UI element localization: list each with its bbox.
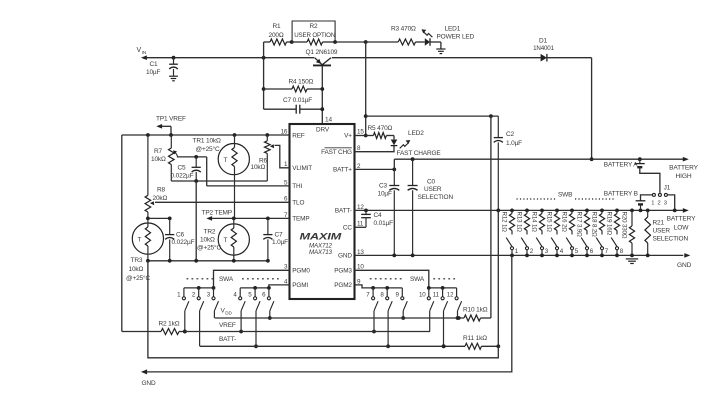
svg-text:SELECTION: SELECTION: [653, 236, 689, 243]
svg-text:SELECTION: SELECTION: [418, 194, 454, 201]
capacitor C4: [365, 210, 367, 214]
wire D1 cathode to battery+: [547, 57, 592, 59]
svg-text:DRV: DRV: [316, 127, 330, 134]
LED LED2: [393, 136, 395, 140]
svg-text:C4: C4: [374, 212, 383, 219]
wire thermistor bottom line: [148, 260, 268, 262]
thermistor TR1: [218, 144, 249, 175]
capacitor C0 user selection: [412, 159, 414, 185]
capacitor C6: [169, 218, 171, 234]
svg-text:1.0µF: 1.0µF: [506, 140, 522, 147]
resistor R2 1k: [161, 329, 179, 335]
capacitor C5: [195, 157, 197, 167]
junction C6 top: [168, 217, 172, 221]
svg-text:R11 1kΩ: R11 1kΩ: [463, 335, 487, 342]
svg-text:BATT+: BATT+: [333, 167, 352, 174]
wire REF left rail down: [121, 135, 123, 332]
junction C0 bottom: [411, 254, 415, 258]
svg-text:PGM3: PGM3: [334, 268, 352, 275]
svg-text:TR3: TR3: [131, 257, 143, 264]
svg-text:C6: C6: [176, 232, 185, 239]
junction D1 / battery+ line: [590, 157, 594, 161]
svg-text:0.022µF: 0.022µF: [172, 239, 195, 246]
svg-text:@+25°C: @+25°C: [197, 243, 221, 251]
wire J1-1 to battery B: [641, 195, 653, 201]
svg-text:PGM2: PGM2: [334, 282, 352, 289]
junction R4 right: [320, 87, 324, 91]
svg-text:R16 2Ω: R16 2Ω: [560, 212, 567, 233]
svg-text:C7 0.01µF: C7 0.01µF: [283, 97, 312, 104]
wire PGM0 pin3 to SWA1-3: [214, 270, 290, 288]
wire R10 riser: [490, 116, 492, 318]
svg-text:FAST CHG: FAST CHG: [321, 149, 352, 156]
junction C3 top / BATT+ jog: [392, 168, 396, 172]
svg-text:R2: R2: [309, 23, 318, 30]
svg-text:D1: D1: [539, 38, 548, 45]
wire R7/R6 bottom link: [171, 180, 267, 182]
junction C5 bottom: [194, 179, 198, 183]
wire pin11 stub: [355, 226, 367, 228]
svg-text:BATT-: BATT-: [335, 208, 352, 215]
junction C2/R11 riser on battery-: [496, 209, 500, 213]
svg-text:R19 16Ω: R19 16Ω: [605, 212, 612, 236]
svg-text:3: 3: [664, 201, 667, 207]
switch SWA-10: [428, 288, 430, 297]
wire R4 row: [264, 88, 292, 90]
wire V+ riser: [365, 42, 367, 136]
wire R7 wiper to THI riser: [177, 156, 207, 158]
wire TEMP line pin7: [212, 217, 290, 219]
svg-text:PGM0: PGM0: [292, 268, 310, 275]
svg-text:10: 10: [419, 291, 426, 298]
switch SWA-6: [268, 288, 270, 297]
wire VIN line to Q1 emitter: [146, 57, 314, 59]
junction VIN / left rail: [262, 56, 266, 60]
svg-text:R2 1kΩ: R2 1kΩ: [159, 320, 180, 327]
capacitor C2: [497, 116, 499, 138]
switch SWA-2: [198, 288, 200, 297]
svg-text:R13 1Ω: R13 1Ω: [515, 212, 522, 233]
IC U1 MAX712/MAX713 body: [290, 124, 355, 299]
resistor R14 with switch SWB-3: [540, 209, 544, 213]
diode D1 1N4001: [541, 54, 547, 62]
resistor R16 with switch SWB-5: [570, 209, 574, 213]
thermistor TR2: [218, 224, 249, 255]
resistor R18 with switch SWB-7: [600, 209, 604, 213]
junction R10 riser top: [489, 114, 493, 118]
wire THI riser: [206, 157, 208, 186]
capacitor C7 0.01uF: [295, 105, 297, 114]
svg-text:BATTERY: BATTERY: [669, 165, 699, 172]
svg-text:CC: CC: [343, 225, 352, 232]
svg-text:@+25°C: @+25°C: [196, 145, 220, 153]
capacitor C7 1.0uF: [267, 218, 269, 234]
test point TP1 VREF: [156, 124, 162, 129]
svg-text:2: 2: [658, 201, 661, 207]
svg-text:TEMP: TEMP: [292, 216, 309, 223]
svg-text:GND: GND: [338, 253, 352, 260]
resistor R2 user option: [307, 39, 322, 45]
svg-text:LOW: LOW: [674, 224, 689, 231]
svg-text:C7: C7: [275, 232, 284, 239]
svg-text:IN: IN: [142, 50, 146, 55]
svg-text:BATTERY A: BATTERY A: [604, 161, 639, 168]
switch SWA-3: [213, 288, 215, 297]
resistor R13 with switch SWB-2: [525, 209, 529, 213]
junction SWA3 top: [212, 286, 216, 290]
svg-text:10µF: 10µF: [378, 190, 393, 197]
switch SWA-8: [386, 288, 388, 297]
wire pin2 stub: [355, 168, 395, 170]
resistor R11: [465, 343, 482, 349]
svg-text:R18 8.2Ω: R18 8.2Ω: [590, 212, 597, 238]
svg-text:T: T: [224, 237, 228, 244]
svg-text:MAXIM: MAXIM: [300, 232, 342, 242]
switch SWA-11: [442, 288, 444, 297]
battery BATTERY A: [639, 159, 641, 163]
wire BATT+ jog: [393, 159, 395, 169]
junction C5-riser bottom: [194, 259, 198, 263]
switch SWA-1: [183, 288, 185, 297]
junction C0 top: [411, 157, 415, 161]
svg-text:T: T: [224, 157, 228, 164]
svg-text:R20 330Ω: R20 330Ω: [620, 212, 627, 239]
node BATTERY HIGH terminal: [683, 157, 689, 162]
wire VDD bus to R10: [464, 315, 481, 321]
svg-text:R7: R7: [154, 148, 163, 155]
svg-text:VLIMIT: VLIMIT: [292, 165, 312, 172]
junction R10 left: [457, 316, 461, 320]
svg-text:R1: R1: [273, 23, 282, 30]
wire Q1 collector line to D1: [332, 57, 541, 59]
svg-text:BATTERY: BATTERY: [667, 216, 697, 223]
wire to R3: [366, 41, 399, 43]
box R2 outline: [292, 21, 335, 42]
junction C5 top: [194, 155, 198, 159]
wire R8 wiper to TLO pin6: [155, 201, 290, 203]
junction R6 on REF: [265, 133, 269, 137]
svg-text:USER OPTION: USER OPTION: [294, 32, 335, 39]
svg-text:14: 14: [325, 116, 332, 123]
resistor R19 with switch SWB-8: [615, 209, 619, 213]
svg-text:0.022µF: 0.022µF: [171, 172, 194, 179]
svg-text:V+: V+: [344, 132, 352, 139]
svg-text:Q1 2N6109: Q1 2N6109: [306, 49, 338, 56]
ground under C1: [169, 75, 178, 77]
svg-text:THI: THI: [292, 183, 302, 190]
wire left rail: [263, 42, 265, 109]
wire VREF bus: [185, 331, 430, 333]
wire R11 riser: [497, 210, 499, 346]
svg-text:VREF: VREF: [219, 322, 236, 329]
svg-text:BATT-: BATT-: [219, 336, 236, 343]
svg-text:GND: GND: [677, 262, 692, 269]
svg-text:C0: C0: [427, 178, 436, 185]
svg-text:BATTERY B: BATTERY B: [604, 191, 638, 198]
wire PGM2 pin9 to SWA7-9: [355, 285, 403, 288]
resistor R12 with switch SWB-1: [510, 209, 514, 213]
svg-text:10kΩ: 10kΩ: [200, 236, 215, 243]
resistor R4: [292, 86, 307, 92]
wire BATT- bus: [200, 345, 465, 347]
junction R2-1k / SWA1: [183, 330, 187, 334]
svg-text:USER: USER: [424, 186, 442, 193]
wire C7 row: [264, 108, 297, 110]
wire R8-C6 link: [148, 217, 170, 219]
junction SWA11 top: [441, 286, 445, 290]
wire SWA10-12 top line: [429, 287, 457, 289]
junction SWA8 top: [385, 286, 389, 290]
junction C4 top: [364, 209, 368, 213]
wire R6 wiper to VLIMIT pin1: [275, 145, 290, 167]
wire R2 out to V+ riser: [335, 41, 366, 43]
resistor R6 10k trimmer: [266, 135, 268, 141]
junction C3 bottom: [392, 254, 396, 258]
svg-text:C3: C3: [379, 183, 388, 190]
resistor R1: [270, 39, 287, 45]
svg-text:REF: REF: [292, 132, 305, 139]
resistor R5: [366, 135, 374, 137]
wire battery- line pin12: [355, 209, 684, 211]
svg-text:R5 470Ω: R5 470Ω: [368, 125, 393, 132]
junction R8 on REF: [146, 133, 150, 137]
switch SWA-9: [401, 288, 403, 297]
junction C7 right: [320, 107, 324, 111]
battery BATTERY B: [636, 200, 646, 202]
svg-text:POWER LED: POWER LED: [437, 34, 475, 41]
svg-text:TP1 VREF: TP1 VREF: [156, 116, 186, 123]
svg-text:J1: J1: [664, 184, 671, 191]
switch SWA-12: [456, 288, 458, 297]
wire SWA1-3 top line: [184, 287, 214, 289]
capacitor C3: [393, 169, 395, 185]
resistor R20: [630, 209, 634, 213]
switch SWA-4: [239, 288, 241, 297]
svg-text:TLO: TLO: [292, 200, 304, 207]
svg-text:SWB: SWB: [558, 192, 572, 199]
svg-text:GND: GND: [142, 380, 156, 387]
switch SWA-5: [254, 288, 256, 297]
node VIN input terminal: [141, 55, 147, 60]
svg-text:200Ω: 200Ω: [269, 32, 284, 39]
junction TR2 bottom: [232, 259, 236, 263]
node BATTERY LOW terminal: [683, 208, 689, 213]
resistor R3: [398, 39, 415, 45]
svg-text:1N4001: 1N4001: [533, 45, 554, 52]
junction R2 box right: [333, 40, 337, 44]
wire battery+ line: [394, 158, 683, 160]
junction battery A tap: [638, 157, 642, 161]
junction TR1 on REF: [233, 133, 237, 137]
ground under R20: [626, 258, 638, 260]
junction R11 right: [496, 344, 500, 348]
test point TP2 TEMP: [206, 216, 212, 221]
svg-text:R10 1kΩ: R10 1kΩ: [463, 307, 488, 314]
wire to R2 1k: [122, 331, 161, 333]
svg-text:C1: C1: [150, 61, 159, 68]
capacitor C1: [173, 58, 175, 64]
svg-text:R12 1Ω: R12 1Ω: [500, 212, 507, 233]
svg-text:TR2: TR2: [204, 228, 216, 235]
svg-text:R15 1Ω: R15 1Ω: [545, 212, 552, 233]
svg-text:R4 150Ω: R4 150Ω: [289, 79, 314, 86]
svg-text:MAX713: MAX713: [309, 249, 333, 256]
junction C7 top: [266, 217, 270, 221]
svg-text:15: 15: [357, 128, 364, 135]
svg-text:R17 3.9Ω: R17 3.9Ω: [575, 212, 582, 238]
junction TR3 bottom: [146, 259, 150, 263]
svg-text:1: 1: [651, 201, 654, 207]
svg-text:10kΩ: 10kΩ: [251, 164, 266, 171]
svg-text:C5: C5: [178, 165, 187, 172]
resistor R7 10k trimmer: [170, 135, 172, 148]
resistor R21 user selection: [646, 209, 650, 213]
junction J1-3 riser: [673, 209, 677, 213]
wire THI line pin5: [207, 185, 290, 187]
svg-text:0.01µF: 0.01µF: [374, 220, 394, 227]
ground under LED1: [436, 48, 445, 50]
wire battery A to J1-2: [640, 167, 660, 193]
wire J1-3 to battery- line: [668, 195, 675, 211]
wire C5 junction riser to BATT- net: [195, 181, 197, 261]
wire Q1 base to DRV pin 14: [321, 65, 323, 124]
wire BATT- return line: [148, 261, 498, 358]
svg-text:USER: USER: [653, 228, 671, 235]
svg-text:10kΩ: 10kΩ: [151, 156, 166, 163]
transistor Q1 2N6109: [313, 64, 331, 66]
svg-text:LED1: LED1: [445, 25, 461, 32]
junction R11 left: [442, 344, 446, 348]
junction C6 bottom: [168, 259, 172, 263]
junction V+ rail tee: [364, 114, 368, 118]
wire R1-R2 link: [292, 41, 307, 43]
wire R1 row: [264, 41, 270, 43]
junction TR2 top: [232, 217, 236, 221]
junction pin15/R5: [364, 134, 368, 138]
wire GND return line: [147, 255, 512, 372]
svg-text:R14 1Ω: R14 1Ω: [530, 212, 537, 233]
junction R4 left: [262, 87, 266, 91]
svg-text:TP2 TEMP: TP2 TEMP: [202, 209, 232, 216]
svg-text:R21: R21: [653, 220, 665, 227]
svg-text:DD: DD: [225, 310, 232, 315]
wire PGM3 pin10 to SWA10-12: [355, 270, 429, 288]
junction R2 box left: [290, 40, 294, 44]
svg-text:R8: R8: [157, 187, 166, 194]
wire V+ rail: [366, 115, 499, 117]
junction SWA10 top: [427, 286, 431, 290]
svg-text:FAST CHARGE: FAST CHARGE: [397, 150, 442, 157]
junction battery B bottom: [639, 209, 643, 213]
svg-text:20kΩ: 20kΩ: [153, 195, 168, 202]
svg-text:V: V: [137, 47, 142, 54]
wire VDD bus: [215, 317, 464, 319]
node GND terminal right: [684, 253, 690, 258]
wire R2 1k out: [179, 331, 185, 333]
svg-text:SWA: SWA: [410, 276, 425, 283]
switch SWA-7: [372, 288, 374, 297]
junction R8/TR3: [146, 217, 150, 221]
svg-text:10kΩ: 10kΩ: [129, 266, 144, 273]
wire LED1 to ground: [430, 41, 441, 43]
thermistor TR3: [132, 223, 163, 254]
connector J1: [652, 193, 655, 196]
wire pin15 stub: [355, 135, 366, 137]
junction SWA5 top: [253, 286, 257, 290]
svg-text:HIGH: HIGH: [676, 173, 692, 180]
svg-text:LED2: LED2: [408, 130, 424, 137]
wire SWA4-6 top line: [240, 287, 269, 289]
junction C1 tap: [172, 56, 176, 60]
svg-text:@+25°C: @+25°C: [126, 274, 150, 282]
wire PGMI pin4 to SWA4-6: [269, 285, 290, 288]
svg-text:TR1 10kΩ: TR1 10kΩ: [193, 138, 222, 145]
svg-text:PGMI: PGMI: [292, 282, 308, 289]
wire LED2 to FAST CHG pin8: [355, 146, 395, 152]
svg-text:C2: C2: [506, 131, 515, 138]
junction SWA2 top: [197, 286, 201, 290]
wire REF line pin16: [122, 134, 290, 136]
junction C7 bottom: [266, 259, 270, 263]
wire GND line pin13: [355, 254, 684, 256]
resistor R8 20k trimmer: [147, 135, 149, 195]
svg-text:T: T: [138, 236, 142, 243]
LED LED1: [425, 38, 430, 45]
resistor R17 with switch SWB-6: [585, 209, 589, 213]
svg-text:SWA: SWA: [219, 276, 234, 283]
svg-text:R3 470Ω: R3 470Ω: [391, 25, 416, 32]
svg-text:12: 12: [447, 291, 454, 298]
svg-text:10µF: 10µF: [146, 69, 161, 76]
svg-text:1.0µF: 1.0µF: [272, 239, 288, 246]
junction SWA7 top: [371, 286, 375, 290]
junction TP1/R7 on REF: [169, 133, 173, 137]
resistor R15 with switch SWB-4: [555, 209, 559, 213]
svg-text:11: 11: [433, 291, 440, 298]
node GND terminal left: [141, 369, 147, 374]
junction SWA6 top: [267, 286, 271, 290]
